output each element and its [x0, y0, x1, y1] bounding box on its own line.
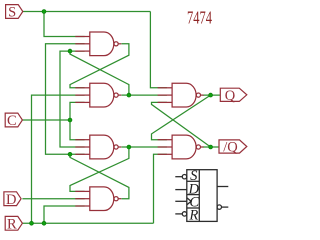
wire net R from R tag to right riser: [22, 222, 153, 224]
output tag NQ: [219, 140, 247, 153]
wire net S branch down to gate U1 top input: [44, 12, 85, 37]
flipflop pin Q: [217, 186, 228, 188]
junction net R left: [30, 221, 34, 225]
junction net N2 at gate U1 bottom input: [68, 49, 72, 53]
junction net N4 at gate U3 bottom input: [68, 152, 72, 156]
wire net S horizontal from S tag to right riser: [23, 11, 151, 13]
wire net N4 gate U4 output diagonal up to gate U3 bottom input: [70, 154, 129, 198]
nand gate U6: [158, 135, 204, 159]
svg-text:/Q: /Q: [223, 140, 238, 156]
nand gate U2: [75, 83, 121, 107]
junction net R right: [42, 221, 46, 225]
svg-text:D: D: [6, 192, 16, 208]
output tag Q: [220, 88, 247, 101]
svg-text:R: R: [188, 208, 198, 224]
wire net S riser down to gate U5 top input: [150, 12, 167, 88]
svg-text:S: S: [8, 5, 16, 21]
nand gate U5: [158, 83, 204, 107]
nand gate U3: [75, 135, 121, 159]
wire net NQ gate U6 output to /Q tag: [203, 146, 219, 148]
junction net Q: [209, 93, 213, 97]
nand gate U4: [75, 187, 121, 211]
input tag C: [5, 113, 22, 127]
wire net Q gate U5 output to Q tag: [203, 94, 221, 96]
flipflop symbol outer box: [187, 170, 217, 222]
wire net C from C tag to junction: [22, 119, 70, 121]
wire net D from D tag to gate U4 middle input: [22, 198, 84, 200]
svg-text:R: R: [7, 216, 17, 232]
input tag D: [4, 192, 21, 206]
nand gate U1: [75, 32, 121, 56]
junction net C: [68, 118, 72, 122]
wire net N3 junction to gate U6 middle input: [129, 146, 167, 148]
svg-text:Q: Q: [225, 88, 236, 104]
wire net C up to gate U2 bottom input: [70, 102, 85, 120]
svg-text:C: C: [7, 113, 17, 129]
svg-text:7474: 7474: [187, 9, 212, 29]
wire net N3 diagonal down to gate U4 top input: [70, 147, 129, 191]
wire net Q feedback diagonal to gate U6 top input: [152, 95, 211, 140]
flipflop pin /Q with bubble: [217, 205, 221, 209]
flipflop pin S with bubble: [175, 176, 182, 178]
wire net N2 junction to gate U5 middle input: [129, 94, 167, 96]
input tag R: [5, 216, 22, 230]
wire net N2 gate U2 output to junction: [121, 94, 128, 96]
wire net NQ feedback diagonal to gate U5 bottom input: [152, 102, 211, 147]
wire net R branch up to gate U4 bottom input: [44, 206, 85, 223]
flipflop pin R with bubble: [175, 213, 182, 215]
flipflop pin C with clock chevron: [175, 200, 187, 202]
wire net C down to gate U3 top input: [70, 120, 85, 140]
flipflop symbol row divider 1: [187, 180, 200, 182]
flipflop symbol row divider 3: [187, 207, 200, 209]
wire net N1 gate U1 output to gate U2 top input: [70, 44, 129, 88]
wire net N2 branch left and down to gate U3 middle input: [60, 51, 85, 147]
junction net N2 at gate U2 output: [127, 93, 131, 97]
junction net N3 at gate U3 output: [127, 145, 131, 149]
wire net N2 diagonal up to gate U1 bottom input: [70, 51, 129, 95]
wire net R branch up to gate U2 middle input: [32, 95, 85, 223]
wire net N4 branch left and up to gate U1 middle input: [46, 44, 85, 155]
wire net R riser up to gate U6 bottom input: [154, 154, 167, 223]
wire net N3 gate U3 output to junction: [121, 146, 128, 148]
flipflop pin D: [175, 189, 187, 191]
junction net NQ: [209, 145, 213, 149]
input tag S: [6, 5, 23, 19]
junction net S at top: [42, 10, 46, 14]
flipflop symbol label column divider: [198, 170, 200, 222]
flipflop symbol row divider 2: [187, 194, 200, 196]
